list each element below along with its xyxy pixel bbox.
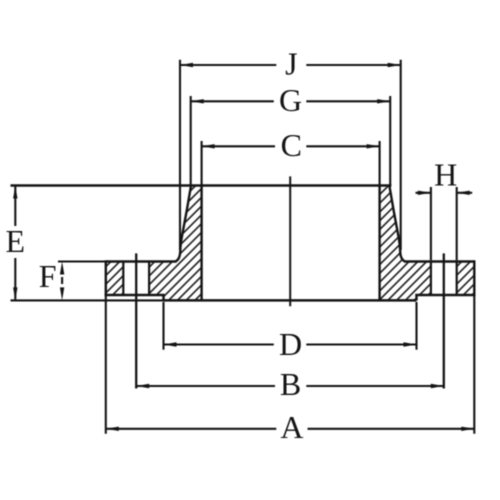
dimension A arrows [106,427,119,431]
dimension B line [136,385,275,387]
bolt hole left wall b [148,262,150,296]
dimension D arrows [164,342,177,346]
dimension B arrows [136,384,149,388]
dimension A extension left [105,296,107,434]
raised face bottom rim [164,299,417,302]
dimension D extension left [162,302,164,350]
svg-text:J: J [285,45,297,81]
dimension G arrows [191,99,204,103]
bolt centerline right (B extension) [443,253,445,388]
dimension H extension left [430,187,432,260]
dimension J arrows [180,63,193,67]
dimension D line [164,343,274,345]
svg-text:D: D [279,326,302,362]
flange right side [473,260,475,296]
dimension C extension left [201,141,203,185]
bottom extension line for E and F [11,299,164,301]
raised face side right [415,295,417,300]
dimension F line dash [61,277,63,284]
hatched section left half [106,187,202,301]
flange top left [106,260,177,262]
dimension H line with outside arrows [416,192,431,194]
dimension J line [180,64,276,66]
hatched section right half [380,187,475,301]
svg-text:A: A [280,409,303,445]
dimension C extension right [379,141,381,185]
svg-text:F: F [39,258,57,294]
hub outer profile left [176,186,191,261]
bore line left [200,185,202,301]
bolt hole right wall b [456,262,458,296]
dimension G line [191,100,274,102]
bolt hole right wall a [430,262,432,296]
dimension C line [202,145,275,147]
dimension F arrows [60,262,64,275]
dimension J extension left [179,60,181,250]
flange left side [105,260,107,296]
dimension G extension right [389,96,391,185]
dimension G extension left [190,96,192,185]
bolt centerline left (B extension) [135,253,137,388]
bore line right [378,185,380,301]
svg-text:G: G [279,82,302,118]
dimension C arrows [202,144,215,148]
dimension F top extension [58,260,107,262]
dimension E line [14,187,16,227]
svg-text:B: B [280,366,301,402]
flange bottom left [105,294,165,296]
bolt hole left wall a [122,262,124,296]
dimension A line [106,428,276,430]
flange axis centerline [289,176,291,306]
dimension E arrows [13,186,17,199]
svg-text:C: C [281,127,302,163]
flange bottom right [415,294,475,296]
flange top right [404,260,474,262]
top rim line (neck top, also E extension) [11,184,392,187]
hub outer profile right [390,186,405,261]
svg-text:H: H [434,157,457,193]
dimension J extension right [400,60,402,250]
dimension A extension right [473,296,475,434]
svg-text:E: E [6,223,26,259]
dimension H extension right [456,187,458,260]
raised face side left [162,295,164,300]
dimension D extension right [415,302,417,350]
